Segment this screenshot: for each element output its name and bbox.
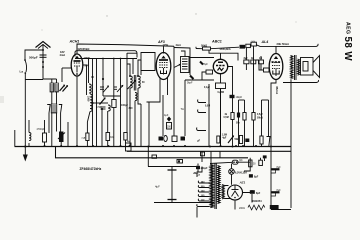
svg-text:58 W: 58 W — [342, 37, 353, 62]
black coupling cap on rail — [240, 45, 246, 49]
svg-text:500pF: 500pF — [29, 56, 38, 60]
electrolytic cap bar 1 — [271, 166, 281, 173]
svg-text:120/35kΩ: 120/35kΩ — [78, 47, 91, 51]
IF transformer 1 winding a — [130, 76, 132, 88]
svg-text:200Ω: 200Ω — [239, 207, 245, 210]
tube ABC1 envelope — [213, 59, 227, 73]
mains terminal Ca — [194, 173, 201, 177]
small cap psu top right — [263, 155, 267, 161]
svg-text:8µF: 8µF — [204, 63, 209, 66]
svg-text:50kΩ: 50kΩ — [257, 117, 263, 119]
det row3 cap dark — [245, 139, 249, 143]
speaker cone — [313, 56, 320, 78]
svg-text:300: 300 — [129, 107, 134, 110]
svg-text:6,3V/0,35A: 6,3V/0,35A — [235, 171, 247, 174]
resistor box psu right 2 — [259, 160, 263, 165]
choke hook end — [316, 44, 318, 47]
tuning gang capacitor arrow 1 — [100, 86, 109, 93]
screen bypass vertical wires mid — [149, 80, 185, 146]
svg-text:RGN354: RGN354 — [252, 199, 263, 203]
tube AF3 envelope — [156, 53, 171, 80]
ground bus lower line — [127, 150, 291, 152]
svg-text:4mA: 4mA — [60, 53, 66, 57]
mains switch — [210, 160, 250, 164]
rail wire to choke — [256, 45, 316, 47]
capacitor black diamond — [167, 117, 171, 122]
rail wire to AL4 — [211, 47, 240, 49]
brand text AEG 58 W vertical — [342, 22, 353, 61]
left bus riser 1 — [14, 130, 16, 147]
resistor box 200 — [167, 123, 172, 130]
pilot lamp — [229, 164, 248, 185]
junction dots on bus — [44, 145, 273, 148]
cap 8uF blob near ABC1 — [200, 62, 208, 67]
feedback loop rectangle left of AF3 — [141, 53, 155, 71]
AL4 cathode down wire — [271, 80, 276, 209]
det row3 box c — [260, 136, 263, 144]
coupling cap 5kpF — [187, 76, 194, 85]
svg-text:4µF: 4µF — [222, 137, 227, 140]
output stage B+ wire down — [290, 80, 292, 209]
grid stopper box left of ABC1 — [202, 70, 213, 80]
faint scan smudge left edge — [0, 96, 4, 103]
filter cap 4uF element — [155, 167, 177, 202]
svg-text:0,1: 0,1 — [239, 160, 243, 162]
svg-text:AZ1: AZ1 — [239, 181, 246, 185]
antenna coil lower winding — [51, 104, 57, 113]
speaker frame — [301, 58, 314, 76]
wire IF2 top — [174, 48, 214, 76]
IF transformer 2 box with winding — [181, 57, 190, 73]
svg-text:1,5M: 1,5M — [222, 134, 227, 136]
svg-text:10kpF: 10kpF — [236, 96, 243, 99]
trimmer arrows on coil — [60, 85, 69, 92]
svg-text:45mA: 45mA — [275, 86, 279, 95]
svg-text:0,5M: 0,5M — [205, 106, 210, 108]
mixer horizontal wires — [75, 59, 137, 104]
resistor box mixer 3 — [124, 133, 127, 141]
resistor box on rail 3 — [251, 42, 256, 46]
svg-text:5kpF: 5kpF — [187, 82, 193, 85]
svg-text:4mA: 4mA — [176, 44, 182, 47]
resistor box on bus 1 — [82, 133, 115, 141]
heater drop wire — [147, 147, 149, 167]
output transformer secondary — [298, 59, 300, 75]
speaker return wire with hook — [283, 80, 319, 83]
antenna A1 — [36, 42, 51, 78]
wire antenna lead into coil — [43, 77, 57, 83]
scan speck 1 — [106, 15, 107, 16]
band switch contact 7 right — [59, 105, 62, 114]
IF1 wires — [127, 60, 145, 147]
label 18V 4mA — [60, 50, 66, 57]
svg-text:8µF: 8µF — [254, 176, 259, 179]
ground bus upper line — [15, 146, 292, 148]
antenna coil upper winding b — [55, 83, 59, 92]
switch La wave band — [20, 59, 27, 74]
resistor box det row1 c — [252, 113, 255, 121]
resistor box left bus — [43, 120, 47, 146]
wire switch to ground bus — [24, 73, 26, 147]
det row3 pot arrow — [228, 135, 234, 143]
volume pot wiper arrow — [174, 64, 181, 68]
AF3 cathode wires down — [147, 78, 168, 103]
pot with arrow left — [58, 132, 65, 147]
AVC coil on bus — [29, 120, 31, 146]
resistor box det row1 b — [243, 113, 246, 121]
svg-text:0,25M: 0,25M — [218, 92, 224, 94]
tube ACH1 envelope — [71, 54, 83, 76]
svg-text:La: La — [20, 70, 24, 74]
output transformer core — [295, 55, 297, 80]
cap 8uF upper black — [249, 174, 259, 178]
resistor box psu right 1 — [249, 160, 252, 167]
mains transformer core — [215, 163, 216, 209]
cap det row1 dark — [237, 113, 240, 118]
wire antenna to wave switch — [25, 50, 43, 60]
wires coil mid — [52, 92, 57, 104]
top HT rail — [77, 44, 174, 54]
det row3 box a — [217, 136, 220, 143]
svg-text:8µF: 8µF — [277, 166, 282, 169]
bottom right return line — [271, 209, 291, 211]
heater line component — [177, 160, 183, 164]
cathode resistor row box b — [251, 57, 256, 64]
svg-text:20H 50mA: 20H 50mA — [277, 42, 290, 46]
svg-text:ABC1: ABC1 — [211, 40, 222, 44]
tuning gang capacitor arrow 2 — [114, 85, 124, 92]
oscillator feedback box 120/35k — [75, 47, 137, 58]
diode load box below ABC1 — [216, 74, 226, 146]
scan speck 4 — [295, 21, 296, 22]
first filter cap 8uF plus — [250, 190, 261, 202]
oscillator coil L4 — [108, 105, 110, 111]
band coil with 1000 label — [87, 94, 93, 111]
grid resistor box left of AL4 — [256, 60, 269, 72]
scan speck 2 — [195, 13, 196, 14]
svg-text:mA: mA — [82, 137, 86, 140]
antenna coil upper winding a — [50, 83, 54, 92]
coupling cap 10kpF black — [230, 95, 243, 99]
svg-text:0,5M: 0,5M — [224, 117, 229, 119]
svg-text:4µF: 4µF — [155, 185, 160, 189]
svg-text:0,5µF: 0,5µF — [257, 114, 264, 116]
mixer section vertical wires — [87, 53, 141, 147]
resistor 50k box mixer — [112, 100, 116, 147]
TA pickup hooks — [181, 100, 207, 131]
svg-text:0,1µF: 0,1µF — [204, 87, 211, 89]
heater line — [56, 147, 249, 158]
svg-text:8µF: 8µF — [244, 58, 249, 60]
oscillator coil L3 — [89, 84, 91, 93]
mains transformer secondary — [218, 166, 221, 204]
bottom return line — [154, 202, 214, 204]
IF transformer 1 core — [134, 75, 136, 91]
mains cord tick — [196, 207, 198, 218]
svg-text:TA: TA — [181, 107, 185, 111]
mains cap 20kpF black — [196, 164, 208, 172]
wire ACH1 anode down — [76, 76, 78, 95]
svg-text:50k: 50k — [236, 123, 241, 125]
detector column wires — [209, 46, 269, 146]
junction dots mixer — [88, 58, 122, 111]
IF transformer 1 winding b — [138, 76, 140, 88]
rectifier AZ1 envelope — [228, 185, 243, 200]
IF1 tuning arrow — [128, 80, 137, 89]
heater bus component right — [201, 152, 205, 156]
cathode resistor row box c — [259, 58, 264, 64]
svg-text:4µF: 4µF — [164, 114, 169, 117]
bottom row components mid — [159, 136, 186, 142]
band switch contact 7 left — [47, 105, 50, 114]
resistor box on rail 2 — [246, 44, 251, 47]
resistor 50k on rail box — [203, 47, 211, 50]
svg-text:4k: 4k — [225, 113, 228, 116]
svg-text:µF: µF — [197, 141, 200, 143]
filter cap 4uF top line — [148, 166, 196, 168]
svg-text:4/5/0,3mA: 4/5/0,3mA — [220, 48, 231, 51]
switch contact box on bus — [126, 141, 132, 151]
ground arrow symbol — [23, 145, 28, 161]
svg-text:60: 60 — [142, 82, 145, 84]
svg-text:50: 50 — [253, 164, 256, 166]
ABC1 wiring loop below rail — [209, 50, 238, 61]
svg-text:4Ω: 4Ω — [251, 57, 254, 60]
labels det row1 — [224, 113, 264, 125]
svg-text:8µF: 8µF — [256, 192, 261, 195]
svg-text:AEG: AEG — [345, 22, 351, 34]
det row3 box b — [239, 136, 242, 144]
ABC1 top wire — [220, 53, 222, 59]
wires coil bottom — [52, 113, 57, 132]
AZ1 output wire — [243, 190, 253, 193]
PSU vertical feeds — [197, 151, 261, 177]
svg-text:100pF: 100pF — [121, 104, 128, 107]
scan speck 3 — [41, 29, 42, 30]
output transformer primary winding — [291, 56, 293, 79]
wires cathode row — [246, 48, 261, 70]
wire pot bottom to ABC1 — [185, 79, 214, 81]
voltage selector taps — [197, 181, 210, 207]
svg-text:8µF: 8µF — [277, 189, 282, 192]
svg-text:4700pF: 4700pF — [37, 128, 46, 131]
padder arrow dark — [100, 97, 106, 109]
bottom black capacitor block — [270, 205, 279, 209]
svg-text:ACH1: ACH1 — [69, 40, 80, 44]
capacitor 500pF antenna series — [29, 55, 47, 60]
wire risers to bus left — [49, 95, 77, 147]
svg-text:1000: 1000 — [87, 96, 90, 102]
cathode resistor row box a — [244, 58, 249, 64]
resistor box det row1 a — [231, 113, 234, 120]
AF3 anode wire — [163, 46, 165, 53]
IF1 lower coil — [135, 93, 137, 101]
tube AL4 envelope — [269, 54, 283, 80]
det row3 hook 7 — [267, 137, 271, 147]
svg-text:ZF468/472kHz: ZF468/472kHz — [80, 167, 102, 171]
electrolytic cap bar 2 — [271, 189, 281, 196]
AZ1 heater winding — [222, 185, 224, 199]
wire ACH1 right side down — [83, 65, 87, 95]
svg-text:AL4: AL4 — [261, 40, 269, 44]
grid wire to ACH1 — [62, 68, 71, 82]
mains transformer primary — [210, 165, 213, 208]
AL4 anode wire to rail — [275, 47, 277, 54]
svg-text:200: 200 — [167, 127, 172, 129]
bleeder resistor zigzag — [239, 205, 265, 210]
heater bus component left — [152, 155, 157, 158]
long AVC vertical wire — [173, 46, 175, 95]
det row3 labels — [197, 134, 239, 142]
